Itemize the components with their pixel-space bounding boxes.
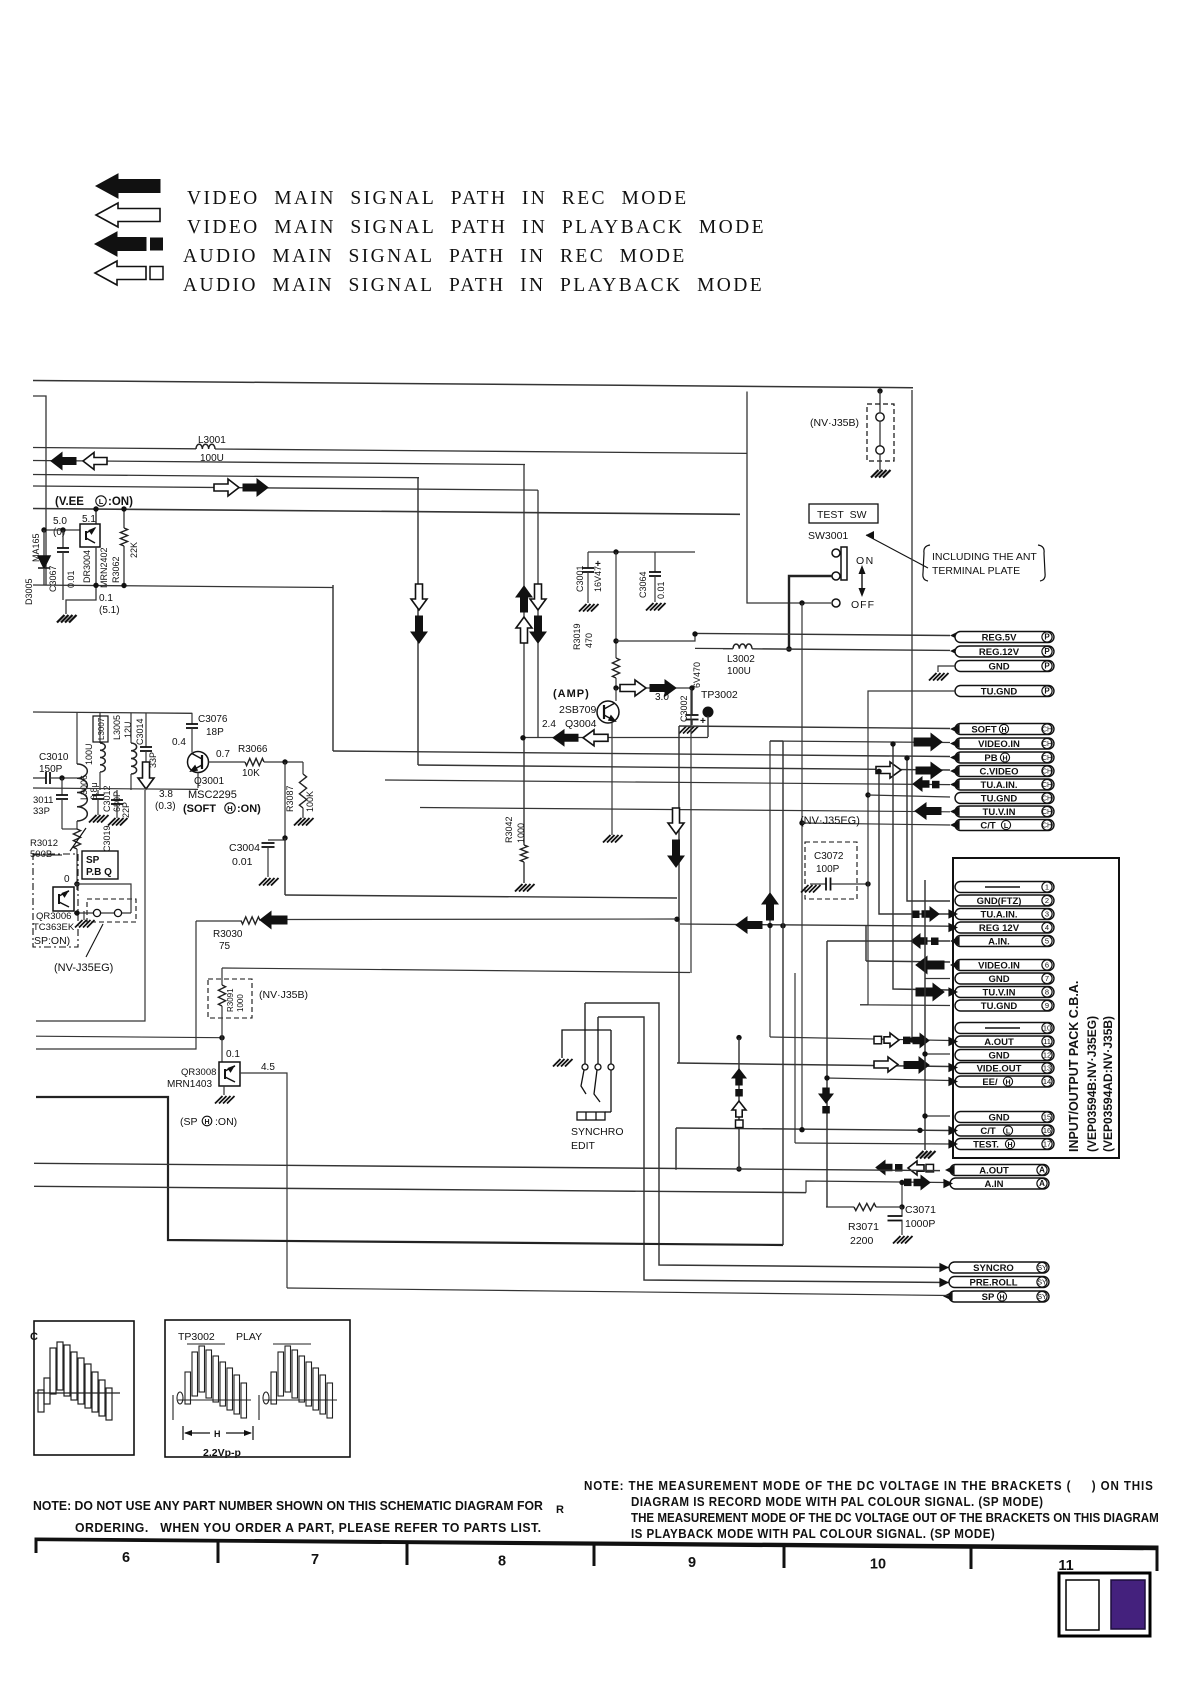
pill GND pin 12 (955, 1050, 1054, 1062)
switch SYNCHRO EDIT (562, 1003, 614, 1120)
svg-text:14: 14 (1043, 1077, 1051, 1086)
svg-text:H: H (1005, 1079, 1010, 1086)
pill SYNCRO SY (949, 1262, 1049, 1274)
svg-text:PB: PB (984, 753, 997, 764)
inductor L3001 (196, 444, 215, 449)
waveform trace PLAY (173, 1344, 251, 1420)
wire TU.V.IN (420, 808, 950, 812)
wire V.EE rail (33, 509, 740, 515)
arrow playback up x524 (516, 617, 532, 643)
audio rec square+arrow pin11 (903, 1037, 911, 1045)
wire Q3004 base rail with left arrows (523, 737, 708, 739)
arrow playback down x419 (411, 584, 427, 610)
svg-text:R3091: R3091 (226, 988, 235, 1012)
svg-text:REG.12V: REG.12V (979, 647, 1020, 658)
svg-text:VIDEO MAIN SIGNAL PATH IN: VIDEO MAIN SIGNAL PATH IN REC MODE (187, 188, 689, 209)
wire vertical x747 to OFF (747, 392, 831, 604)
wire VIDE.OUT pin13 (677, 1063, 950, 1067)
ground GND pill (929, 673, 949, 681)
svg-text:3011: 3011 (33, 795, 53, 806)
ground C3064 (646, 603, 666, 611)
pill TU.V.IN CH (955, 806, 1054, 818)
colour swatch box (1059, 1573, 1150, 1636)
svg-text:REG 12V: REG 12V (979, 923, 1020, 934)
svg-text:33P: 33P (33, 806, 50, 817)
svg-text:TU.V.IN: TU.V.IN (983, 987, 1016, 998)
svg-text:(NV·J35B): (NV·J35B) (259, 989, 308, 1001)
wire R3091 top rail to x691 (222, 968, 690, 973)
svg-text:C.VIDEO: C.VIDEO (979, 766, 1018, 777)
svg-text:(NV-J35EG): (NV-J35EG) (54, 962, 113, 974)
arrow+square rec right pin3 (912, 911, 920, 919)
arrow playback down x538 (530, 584, 546, 610)
svg-text:P: P (1044, 633, 1050, 642)
svg-text:1000: 1000 (516, 823, 526, 843)
svg-text:2.2Vp-p: 2.2Vp-p (203, 1447, 241, 1459)
svg-text:22P: 22P (121, 802, 131, 818)
svg-text:10: 10 (870, 1556, 886, 1572)
H measurement (183, 1426, 253, 1440)
svg-text:EDIT: EDIT (571, 1140, 596, 1152)
svg-text:SW3001: SW3001 (808, 530, 848, 542)
wire TEST pin17 (795, 1143, 950, 1144)
wire PB H (333, 751, 950, 757)
svg-text:6: 6 (122, 1550, 130, 1566)
svg-text:H: H (204, 1119, 209, 1126)
svg-text:MA165: MA165 (31, 533, 41, 562)
wire GND pin7 (925, 978, 950, 980)
audio rec down arrow x826 (819, 1088, 833, 1103)
wire emitter rail y789 (33, 788, 198, 789)
svg-text:TU.GND: TU.GND (981, 686, 1018, 697)
wire EE/ H pin14 (826, 1078, 950, 1081)
wire rail y1186 to A.IN (34, 1186, 806, 1192)
svg-text:(AMP): (AMP) (553, 688, 590, 700)
svg-text:VIDE.OUT: VIDE.OUT (977, 1063, 1022, 1074)
legend arrow video playback (outline left arrow) (96, 203, 160, 227)
resistor R3019 470 (615, 552, 617, 658)
ground C3071 (893, 1236, 913, 1244)
svg-text:(SP: (SP (180, 1116, 198, 1128)
pill TU.A.IN. pin 3 (955, 909, 1054, 921)
ground QR3008 (223, 1086, 225, 1095)
audio rec up arrow x739 (732, 1069, 746, 1085)
svg-text:(NV·J35EG): (NV·J35EG) (800, 815, 860, 827)
capacitor C3072 100P in dashed box (805, 842, 857, 899)
pill TU.GND P (955, 686, 1054, 698)
svg-text:0.1: 0.1 (99, 593, 113, 604)
audio rec arrow left A.OUT (876, 1161, 892, 1175)
ruler ticks (217, 1541, 220, 1563)
wire C/T pin16 (676, 1128, 950, 1131)
svg-text:CH: CH (1042, 796, 1052, 803)
svg-text:(SOFT: (SOFT (183, 803, 216, 815)
wire Q3004 collector (615, 688, 617, 701)
svg-text:C/T: C/T (980, 821, 996, 832)
ruler bar (36, 1539, 1157, 1571)
svg-text:6V470: 6V470 (692, 662, 702, 688)
legend arrow video rec (filled left arrow) (96, 174, 160, 198)
svg-text:H: H (1001, 727, 1006, 734)
ground NV-J35B connector (871, 470, 891, 478)
svg-text:2.4: 2.4 (542, 719, 556, 730)
wire GND pin12 (925, 1053, 950, 1055)
svg-text:7: 7 (1045, 974, 1049, 983)
inductor L3007 100U (boxed label) (99, 713, 101, 744)
svg-text:L: L (99, 497, 104, 506)
svg-text:R3071: R3071 (848, 1221, 879, 1233)
wire TU.A.IN (385, 780, 950, 785)
svg-text:CH: CH (1042, 782, 1052, 789)
svg-text:L: L (1004, 823, 1009, 830)
pointer line SW3001 (866, 535, 928, 568)
wire switch thick to reg rail (789, 576, 832, 649)
transistor QR3006 TC363EK (76, 884, 78, 890)
svg-text:DR3004: DR3004 (82, 550, 92, 583)
wire R3030 net (678, 726, 680, 1063)
wire C/T L from x802 (799, 820, 804, 825)
svg-text:7: 7 (311, 1552, 319, 1568)
svg-text:INCLUDING THE ANT: INCLUDING THE ANT (932, 551, 1037, 563)
svg-text:15: 15 (1043, 1113, 1051, 1122)
wire to ground (66, 585, 96, 614)
switch SW3001 lever (841, 547, 847, 580)
wire L3001 rail (33, 448, 196, 449)
svg-text:100K: 100K (305, 791, 315, 812)
svg-text:TERMINAL PLATE: TERMINAL PLATE (932, 565, 1020, 577)
resistor R3091 1000 (NV-J35B) dashed box (208, 979, 252, 1018)
arrow video playback left (83, 453, 107, 470)
svg-text:R3066: R3066 (238, 744, 268, 755)
arrow rec left TU.V.IN (915, 803, 941, 819)
pill C.VIDEO CH (955, 766, 1054, 778)
arrow rec up x770 (762, 893, 778, 920)
pill blank pin 16 (955, 1125, 1054, 1136)
resistor R3066 10K (245, 758, 264, 765)
capacitor C3002 6V470 (691, 688, 693, 715)
svg-text:4.5: 4.5 (261, 1062, 275, 1073)
wire GND pill to ground (938, 666, 955, 672)
white swatch (1066, 1580, 1099, 1630)
svg-text:1000: 1000 (236, 994, 245, 1012)
svg-text:4: 4 (1045, 923, 1049, 932)
wire node y688 with right arrows to C3002 (616, 687, 692, 689)
svg-text:CH: CH (1042, 755, 1052, 762)
wire GND pin15 (925, 1115, 950, 1117)
wire rail y1038 (36, 1036, 222, 1038)
pill A.IN. pin 5 (955, 936, 1054, 948)
svg-text:5.0: 5.0 (53, 516, 67, 527)
wire x795 vertical (794, 973, 796, 1143)
ground C3072 (801, 885, 821, 893)
wire R3030 rail (196, 920, 241, 922)
pill A.OUT pin 11 (955, 1036, 1054, 1048)
svg-text:ORDERING. WHEN YOU ORDER A P: ORDERING. WHEN YOU ORDER A PART, PLEASE … (75, 1520, 542, 1536)
wire DR3004 bottom rail (33, 585, 333, 588)
arrow playback left base (583, 730, 608, 746)
arrow rec down x538 (530, 616, 546, 643)
wire top-left corner stub (33, 396, 46, 585)
svg-text:R3062: R3062 (111, 556, 121, 583)
wire x196 down (36, 921, 196, 1049)
svg-text:3.0: 3.0 (655, 692, 669, 703)
wire x285 down to elbow right (284, 838, 286, 895)
ground C3001 (579, 604, 599, 612)
pill GND(FTZ) pin 2 (955, 895, 1054, 907)
svg-text:R3087: R3087 (285, 785, 295, 812)
pill REG 12V pin 4 (955, 922, 1054, 934)
svg-text:0.1: 0.1 (226, 1049, 240, 1060)
arrow rec right C.VIDEO (916, 763, 942, 779)
box INPUT/OUTPUT PACK C.B.A. (953, 858, 1119, 1158)
svg-text:SP: SP (86, 855, 100, 866)
resistor R3062 22K (123, 509, 125, 528)
svg-text:10: 10 (1043, 1024, 1051, 1033)
pill blank pin 1 (955, 882, 1054, 893)
svg-text:H: H (214, 1429, 221, 1439)
diode D3005 MA165 (43, 530, 45, 556)
arrow rec right pin8 (916, 984, 944, 1001)
wire x826 vertical EE net (826, 941, 828, 1207)
wire SOFT H (679, 726, 950, 729)
audio rec square+arrow A.IN (904, 1179, 912, 1187)
wire junction down to C3004 (284, 762, 286, 838)
pill GND pin 7 (955, 973, 1054, 985)
transistor DR3004 MRN2402 (95, 509, 97, 525)
wire C.VIDEO (418, 765, 950, 770)
wire R3071 left to x826 (826, 1206, 854, 1208)
svg-text:16: 16 (1043, 1126, 1051, 1135)
svg-text:C3072: C3072 (814, 851, 844, 862)
svg-text:C3019: C3019 (102, 825, 112, 852)
pill SP H SY (949, 1291, 1049, 1302)
svg-text:AUDIO MAIN SIGNAL PATH IN: AUDIO MAIN SIGNAL PATH IN REC MODE (183, 246, 687, 267)
wire SYNCRO net (585, 1003, 949, 1268)
wire REG 12V rail via y926 (680, 924, 950, 926)
svg-text::ON): :ON) (237, 803, 261, 815)
inductor L3002 100U (733, 644, 752, 649)
svg-text:R3030: R3030 (213, 929, 243, 940)
svg-text:H: H (1002, 755, 1007, 762)
inductor L3005 12U (130, 713, 132, 743)
pill VIDEO.IN pin 6 (955, 960, 1054, 972)
svg-text:(V.EE: (V.EE (55, 496, 84, 508)
svg-text:L3002: L3002 (727, 654, 755, 665)
svg-text:(5.1): (5.1) (99, 605, 120, 616)
svg-text:C3076: C3076 (198, 714, 228, 725)
svg-text:9: 9 (1045, 1001, 1049, 1010)
svg-text:SY: SY (1037, 1294, 1047, 1301)
svg-text:TC363EK: TC363EK (33, 922, 75, 933)
svg-text:R3019: R3019 (572, 623, 582, 650)
svg-text:D3005: D3005 (24, 578, 34, 605)
svg-text:MRN1403: MRN1403 (167, 1079, 212, 1090)
pill GND P (955, 661, 1054, 673)
svg-text:C3071: C3071 (905, 1204, 936, 1216)
svg-text:ON: ON (856, 555, 875, 567)
wire mid rail y713 (33, 712, 192, 713)
wire r3019 to reg rail (616, 634, 695, 641)
ground C3019 (108, 818, 128, 826)
arrow rec up x524 (516, 586, 532, 612)
svg-text:+: + (700, 716, 706, 727)
svg-text:100U: 100U (727, 666, 751, 677)
svg-text:MRN2402: MRN2402 (99, 547, 109, 588)
wire SP H rail (287, 1288, 949, 1296)
svg-text:DIAGRAM IS RECORD MODE WITH PA: DIAGRAM IS RECORD MODE WITH PAL COLOUR S… (631, 1495, 1043, 1510)
svg-text:22K: 22K (129, 542, 139, 558)
pill VIDE.OUT pin 13 (955, 1063, 1054, 1075)
ground R3087 (294, 818, 314, 826)
wire A.OUT A row (736, 1166, 741, 1171)
svg-text:P: P (1044, 662, 1050, 671)
arrow rec left pin5 + square (911, 934, 927, 948)
ground QR3006 (75, 920, 95, 928)
wire x676 up to C/T wire (675, 1128, 677, 1170)
svg-text:GND(FTZ): GND(FTZ) (977, 896, 1022, 907)
svg-text:SYNCRO: SYNCRO (973, 1263, 1014, 1274)
svg-text:(VEP03594AD:NV·J35B): (VEP03594AD:NV·J35B) (1101, 1016, 1115, 1152)
pill VIDEO.IN CH (955, 738, 1054, 750)
wire TU.A.IN pin3 (879, 771, 950, 914)
wire stub left y855 (33, 854, 62, 856)
pill PB H CH (955, 752, 1054, 763)
wire rail with right arrows (33, 486, 538, 490)
legend arrow audio rec (filled left arrow + filled square) (95, 232, 146, 256)
arrow playback right C.VIDEO (876, 762, 901, 778)
pill TU.A.IN. CH (955, 779, 1054, 791)
svg-text:CH: CH (1042, 727, 1052, 734)
svg-text:A: A (1039, 1166, 1045, 1175)
svg-text:17: 17 (1043, 1140, 1051, 1149)
svg-text:GND: GND (988, 1050, 1009, 1061)
svg-text:H: H (1007, 1142, 1012, 1149)
audio playback square+arrow pin11 (874, 1036, 882, 1044)
svg-text:P: P (1044, 687, 1050, 696)
svg-text:18P: 18P (206, 727, 224, 738)
arrow playback down C3014 (138, 762, 154, 789)
wire vertical x334 to PB rail (332, 585, 334, 751)
svg-text:R3012: R3012 (30, 838, 58, 849)
svg-text:SY: SY (1037, 1280, 1047, 1287)
arrow rec left y926 (736, 917, 762, 933)
wire y553 link (588, 551, 695, 553)
svg-text:TU.GND: TU.GND (981, 1001, 1018, 1012)
arrowhead pin4 (948, 923, 958, 933)
svg-text:VIDEO.IN: VIDEO.IN (978, 960, 1020, 971)
svg-text:75: 75 (219, 941, 231, 952)
wire x739 vertical with audio arrows (738, 1038, 740, 1170)
transistor Q3001 MSC2295 (188, 752, 209, 773)
svg-text:1000P: 1000P (905, 1218, 935, 1230)
svg-text:NOTE: THE MEASUREMENT MODE OF: NOTE: THE MEASUREMENT MODE OF THE DC VOL… (584, 1479, 1154, 1494)
capacitor C3064 0.01 (654, 552, 656, 572)
svg-text:+: + (595, 559, 601, 570)
svg-text:SOFT: SOFT (971, 725, 997, 736)
wire vertical x419 with down arrows (417, 478, 419, 765)
wire Q3001 collector to R3066 (209, 761, 246, 763)
wire x783 vertical (782, 741, 784, 1245)
svg-text:(VEP03594B:NV·J35EG): (VEP03594B:NV·J35EG) (1085, 1016, 1099, 1152)
svg-text:SP:ON): SP:ON) (34, 935, 70, 947)
arrowhead REG.5V (950, 631, 960, 641)
wire vertical x538 with down arrows (537, 490, 539, 738)
svg-text:0.4: 0.4 (172, 737, 186, 748)
box TEST SW (809, 504, 878, 523)
svg-text:A.IN: A.IN (985, 1179, 1004, 1190)
svg-text:TU.A.IN.: TU.A.IN. (981, 780, 1018, 791)
arrow playback right y688 (620, 680, 646, 696)
svg-text:PRE.ROLL: PRE.ROLL (969, 1277, 1017, 1288)
video rec arrow pin13 (904, 1057, 929, 1073)
svg-text:TP3002: TP3002 (701, 689, 738, 701)
waveform box REC (left, cut) (34, 1321, 134, 1455)
svg-text:2: 2 (1045, 896, 1049, 905)
svg-text:L: L (1006, 1128, 1011, 1135)
svg-text:MSC2295: MSC2295 (188, 789, 237, 801)
wire GND net vertical + ground (924, 880, 926, 1150)
dash-dot box NV-J35EG region (33, 854, 78, 947)
svg-text:0.01: 0.01 (656, 581, 666, 599)
switch arrow up-down (861, 572, 863, 590)
pill SOFT H CH (955, 724, 1054, 735)
wire VIDEO.IN pin6 (866, 961, 950, 962)
svg-text:P: P (1044, 647, 1050, 656)
svg-text:0: 0 (64, 874, 70, 885)
svg-text:C3012: C3012 (102, 785, 112, 812)
resistor R3030 75 (241, 917, 260, 924)
wire PRE.ROLL net (598, 1017, 949, 1283)
ground R3042 (515, 884, 535, 892)
svg-text:GND: GND (988, 661, 1009, 672)
legend arrow audio playback (outline left arrow + outline square) (95, 261, 146, 285)
arrowhead REG.12V (950, 646, 960, 656)
wire video rail (rec/playback arrows) (33, 461, 525, 465)
svg-text:C: C (30, 1331, 38, 1343)
svg-text:TP3002: TP3002 (178, 1331, 215, 1343)
pill blank pin 17 (955, 1139, 1054, 1150)
waveform box TP3002 PLAY (165, 1320, 350, 1457)
svg-text:11: 11 (1043, 1037, 1051, 1046)
pill TU.GND pin 9 (955, 1000, 1054, 1012)
svg-text:R: R (556, 1504, 564, 1516)
svg-text:SYNCHRO: SYNCHRO (571, 1126, 624, 1138)
capacitor C3019 22P (116, 790, 118, 800)
svg-text:INPUT/OUTPUT PACK C.B.A.: INPUT/OUTPUT PACK C.B.A. (1067, 981, 1081, 1152)
resistor R3042 1000 (523, 738, 525, 845)
svg-text:CH: CH (1042, 823, 1052, 830)
svg-text:A.IN.: A.IN. (988, 936, 1010, 947)
arrow rec right (243, 479, 268, 496)
wire TU.GND via x868 (865, 792, 870, 797)
wire vertical x524 with up arrows (523, 465, 525, 738)
svg-text:CH: CH (1042, 809, 1052, 816)
pill TU.V.IN pin 8 (955, 987, 1054, 999)
svg-text:A: A (1039, 1179, 1045, 1188)
wire x145 vertical to rail y1021 (36, 790, 145, 1021)
pill PRE.ROLL SY (949, 1277, 1049, 1289)
svg-text:TEST SW: TEST SW (817, 509, 867, 521)
svg-text:8: 8 (1045, 988, 1049, 997)
wire x770 vertical with up arrow (769, 741, 771, 1037)
arrowhead SP H (943, 1291, 953, 1301)
wire REG.5V rail (695, 633, 950, 635)
relay contact dashed box (NV-J35EG) (87, 899, 136, 922)
capacitor C3014 33P (145, 713, 147, 748)
pill blank pin 14 (955, 1076, 1054, 1087)
svg-text:NOTE: DO NOT USE ANY PART NUMB: NOTE: DO NOT USE ANY PART NUMBER SHOWN O… (33, 1498, 543, 1514)
ground pills GND (916, 1151, 936, 1159)
